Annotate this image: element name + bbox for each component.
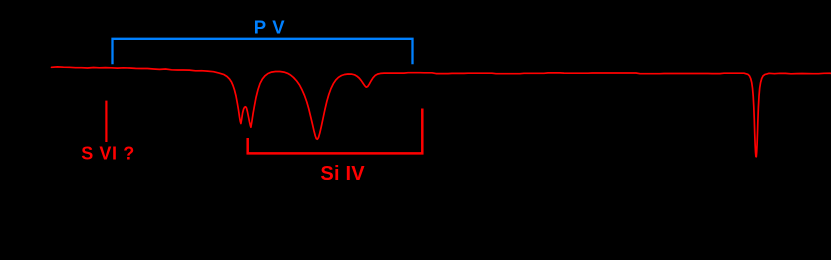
- svg-text:Si IV: Si IV: [320, 163, 365, 185]
- svg-text:P V: P V: [254, 17, 286, 38]
- svg-text:S VI ?: S VI ?: [81, 144, 135, 164]
